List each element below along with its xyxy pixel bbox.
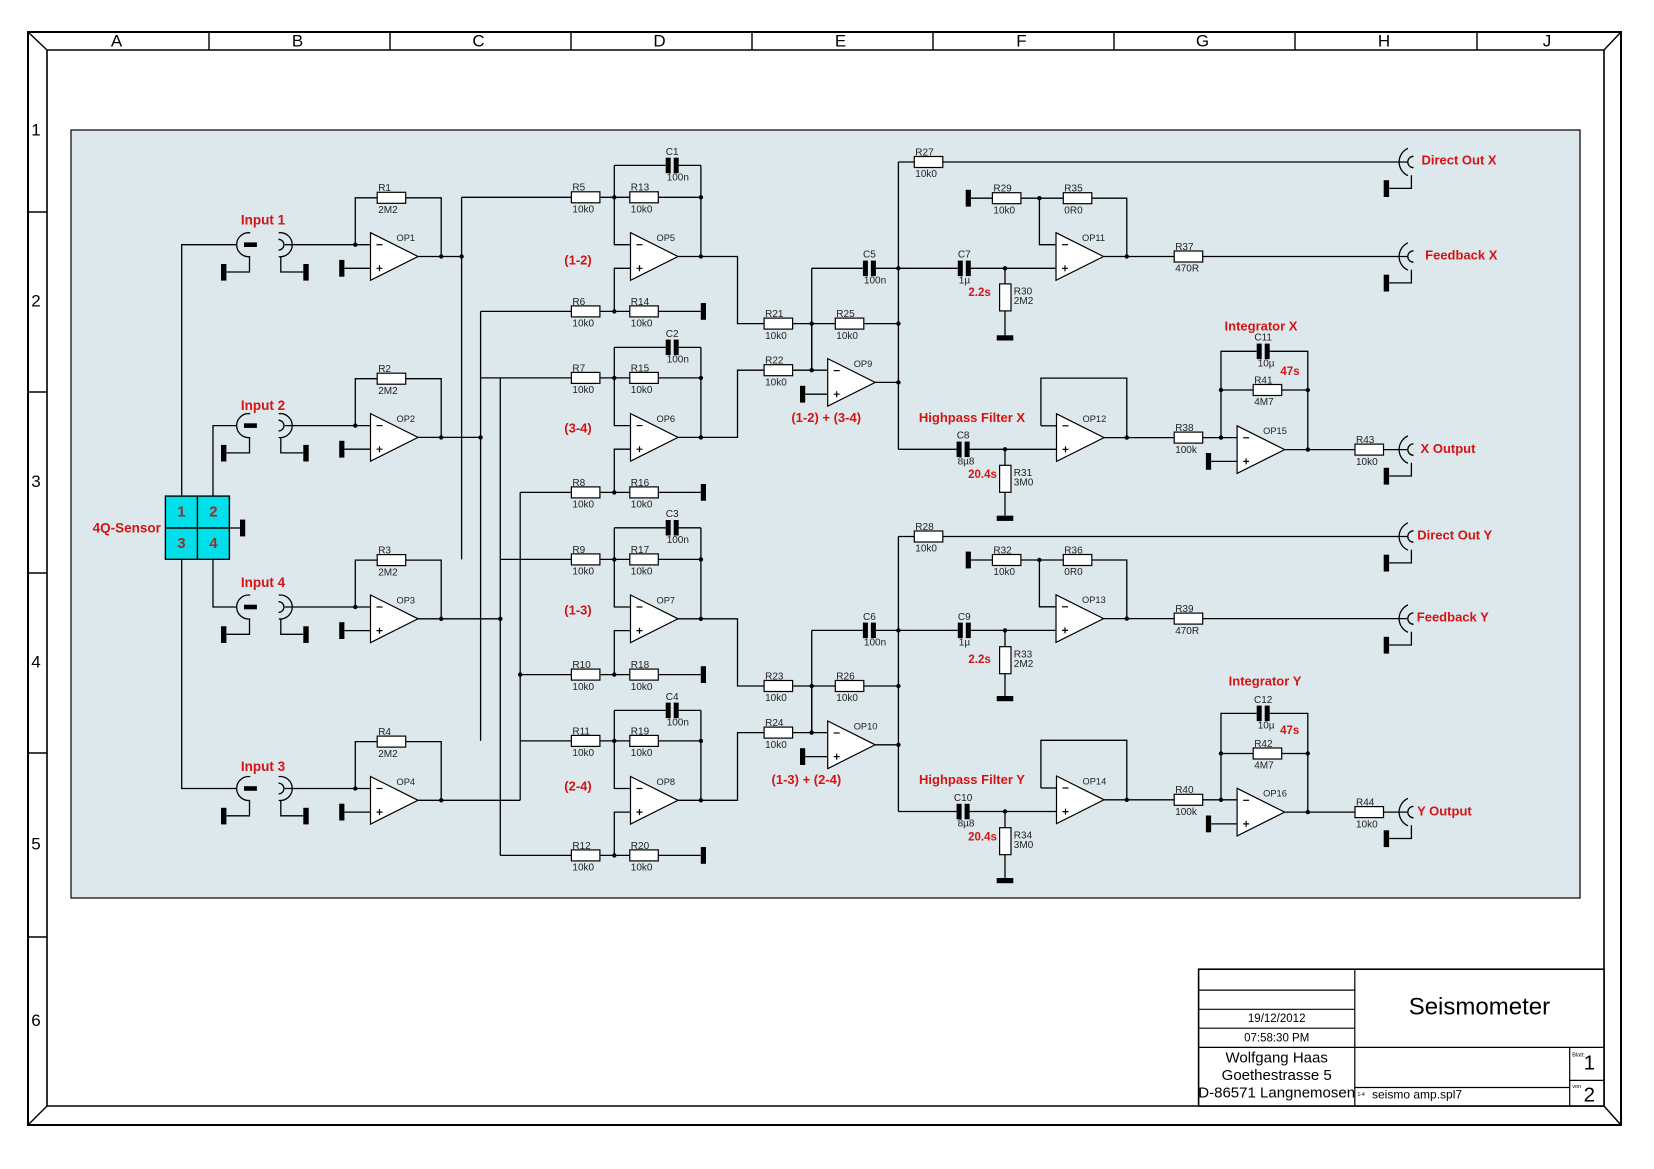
svg-text:Input 1: Input 1 <box>241 213 286 228</box>
wire R39 to Feedback Y <box>1203 618 1408 620</box>
svg-text:seismo amp.spl7: seismo amp.spl7 <box>1372 1088 1462 1102</box>
wire bus input4 column <box>499 378 501 856</box>
op-amp OP11 <box>1056 233 1105 281</box>
wire C6 left lead <box>812 629 863 631</box>
resistor R3 <box>377 546 406 579</box>
connector jack Feedback Y <box>1384 605 1414 654</box>
svg-text:R35: R35 <box>1064 184 1083 195</box>
junction OP12 output feedback <box>1125 435 1129 439</box>
wire OP11 inverting input jog <box>1039 198 1056 245</box>
svg-text:Y Output: Y Output <box>1417 804 1472 819</box>
terminator plate R32 input <box>966 552 971 569</box>
resistor R27 <box>914 147 943 180</box>
wire OP4 non-inverting input <box>344 811 370 813</box>
svg-text:10k0: 10k0 <box>631 748 653 759</box>
svg-text:D-86571 Langnemosen: D-86571 Langnemosen <box>1198 1084 1355 1101</box>
wire OP3 output <box>418 618 500 620</box>
resistor R38 <box>1174 423 1203 456</box>
svg-text:R20: R20 <box>631 841 650 852</box>
resistor R17 <box>630 545 659 578</box>
node OP4 inverting input <box>353 786 357 790</box>
wire R8 to R16 <box>600 491 630 493</box>
resistor R16 <box>630 478 659 511</box>
wire OP4 feedback right <box>406 742 442 801</box>
junction OP8 output feedback <box>699 798 703 802</box>
junction input4 column at OP3 output <box>498 617 502 621</box>
svg-text:R22: R22 <box>765 356 784 367</box>
svg-text:C4: C4 <box>666 692 679 703</box>
wire R29 to R35 <box>1021 197 1063 199</box>
wire R34 top lead <box>1004 812 1006 828</box>
junction R41 left <box>1219 388 1223 392</box>
wire OP14 inverting input <box>1041 787 1057 789</box>
svg-text:10k0: 10k0 <box>1356 457 1378 468</box>
resistor R42 <box>1253 739 1282 772</box>
capacitor C4 <box>666 692 689 729</box>
wire R7 to R15 <box>600 377 630 379</box>
wire sensor Q4 to Input 4 <box>213 559 237 607</box>
wire C6 branch vertical <box>811 630 813 732</box>
wire OP1 feedback left <box>355 198 377 245</box>
wire OP2 feedback left <box>355 379 377 426</box>
svg-text:Goethestrasse 5: Goethestrasse 5 <box>1222 1067 1332 1084</box>
wire C8 to OP12 non-inverting input <box>970 448 1057 450</box>
svg-text:5: 5 <box>31 834 40 853</box>
svg-text:100n: 100n <box>667 173 689 184</box>
resistor R31 <box>1000 465 1034 492</box>
resistor R39 <box>1174 604 1203 637</box>
wire OP8 non-inverting input jog <box>614 812 630 855</box>
svg-text:0R0: 0R0 <box>1064 205 1083 216</box>
connector jack X Output <box>1384 436 1414 485</box>
junction OP16 output feedback <box>1306 810 1310 814</box>
wire C10 to OP14 non-inverting input <box>970 811 1057 813</box>
svg-text:von: von <box>1572 1084 1581 1090</box>
wire R32 to R36 <box>1021 559 1063 561</box>
resistor R33 <box>1000 647 1034 674</box>
svg-text:R14: R14 <box>631 297 650 308</box>
svg-text:2M2: 2M2 <box>1014 659 1034 670</box>
resistor R28 <box>914 522 943 555</box>
junction R11/R19 node <box>612 739 616 743</box>
svg-text:0R0: 0R0 <box>1064 567 1083 578</box>
wire R33 top lead <box>1004 630 1006 646</box>
wire C5 branch vertical <box>811 268 813 370</box>
svg-text:Integrator Y: Integrator Y <box>1229 674 1302 689</box>
svg-text:Wolfgang Haas: Wolfgang Haas <box>1226 1049 1328 1066</box>
capacitor C1 <box>666 147 689 184</box>
resistor R12 <box>571 841 600 874</box>
op-amp OP12 <box>1057 414 1107 462</box>
wire OP13 inverting input jog <box>1039 560 1056 607</box>
junction C7/R30 node <box>1003 266 1007 270</box>
svg-text:OP14: OP14 <box>1083 776 1107 786</box>
wire OP7 output to R23 <box>678 619 764 686</box>
wire OP1 non-inverting input <box>344 267 370 269</box>
wire R24 to OP10 inverting input <box>793 732 828 734</box>
svg-text:2M2: 2M2 <box>378 567 398 578</box>
resistor R44 <box>1355 798 1384 831</box>
svg-text:10k0: 10k0 <box>915 169 937 180</box>
junction R9/R17 node <box>612 557 616 561</box>
resistor R40 <box>1174 785 1203 818</box>
junction R41 right <box>1306 388 1310 392</box>
svg-text:10k0: 10k0 <box>765 693 787 704</box>
junction OP9 summing node <box>810 321 814 325</box>
junction R12/R20 node <box>612 853 616 857</box>
wire OP5 feedback column <box>700 165 702 256</box>
wire R41 left lead <box>1221 389 1253 391</box>
wire R28 left lead <box>898 536 914 538</box>
svg-text:R19: R19 <box>631 726 650 737</box>
svg-text:OP11: OP11 <box>1082 233 1105 243</box>
svg-text:100n: 100n <box>667 355 689 366</box>
wire OP9 summing vertical <box>811 324 813 371</box>
wire R27 left lead <box>898 161 914 163</box>
wire R35 to OP11 output <box>1092 198 1127 256</box>
wire OP9 non-inverting input <box>805 393 828 395</box>
svg-text:C12: C12 <box>1254 695 1273 706</box>
svg-text:C: C <box>472 31 484 50</box>
junction OP5 output feedback <box>699 254 703 258</box>
svg-text:2M2: 2M2 <box>378 386 398 397</box>
wire OP10 summing vertical <box>811 686 813 733</box>
terminator plate OP1 non-inverting input <box>339 260 344 277</box>
wire R11 input <box>520 740 571 742</box>
wire OP1 output <box>418 256 462 258</box>
op-amp OP3 <box>371 595 419 643</box>
sensor 4Q quadrant box <box>165 496 229 559</box>
svg-text:A: A <box>111 31 123 50</box>
svg-text:10k0: 10k0 <box>915 544 937 555</box>
wire OP16 non-inverting input <box>1211 823 1237 825</box>
ground under R30 <box>997 335 1014 340</box>
svg-text:OP9: OP9 <box>854 359 873 369</box>
op-amp OP13 <box>1056 595 1106 643</box>
svg-text:1µ: 1µ <box>959 276 971 287</box>
terminator plate OP15 non-inverting input <box>1206 453 1211 470</box>
wire R44 to Y Output <box>1384 811 1408 813</box>
resistor R22 <box>764 356 793 389</box>
wire OP8 feedback column <box>700 710 702 800</box>
junction C9/R33 node <box>1003 628 1007 632</box>
svg-text:OP15: OP15 <box>1263 426 1287 436</box>
connector jack Input 3 <box>221 777 309 825</box>
capacitor C12 <box>1254 695 1275 732</box>
resistor R34 <box>1000 828 1034 855</box>
wire OP6 non-inverting input jog <box>614 449 630 492</box>
svg-text:100k: 100k <box>1175 807 1198 818</box>
connector jack Input 1 <box>221 233 309 281</box>
junction Y node at OP10 output <box>896 743 900 747</box>
svg-text:6: 6 <box>31 1011 40 1030</box>
junction OP7 output feedback <box>699 617 703 621</box>
terminator plate R29 input <box>966 190 971 207</box>
capacitor C9 <box>958 612 971 649</box>
terminator plate OP4 non-inverting input <box>339 804 344 821</box>
svg-text:10µ: 10µ <box>1258 359 1275 370</box>
svg-text:10µ: 10µ <box>1258 721 1275 732</box>
svg-text:F: F <box>1016 31 1026 50</box>
wire R19 to feedback node <box>658 740 701 742</box>
ground under R31 <box>997 516 1014 521</box>
wire OP11 output to R37 <box>1104 256 1175 258</box>
svg-text:R40: R40 <box>1175 785 1194 796</box>
wire main node X vertical <box>897 162 899 449</box>
resistor R6 <box>571 297 600 330</box>
wire R25 to main vertical <box>864 323 899 325</box>
resistor R20 <box>630 841 659 874</box>
svg-text:10k0: 10k0 <box>572 682 594 693</box>
svg-text:R26: R26 <box>836 671 855 682</box>
resistor R35 <box>1063 184 1092 217</box>
svg-text:X Output: X Output <box>1421 441 1477 456</box>
junction OP15 output feedback <box>1306 447 1310 451</box>
junction OP1 output feedback tap <box>439 254 443 258</box>
svg-text:OP7: OP7 <box>657 595 676 605</box>
wire C3 right lead <box>679 527 701 529</box>
svg-text:4Q-Sensor: 4Q-Sensor <box>93 521 162 536</box>
svg-text:R4: R4 <box>378 727 391 738</box>
junction feedback column at R17 <box>699 557 703 561</box>
svg-text:Input 3: Input 3 <box>241 759 286 774</box>
capacitor C5 <box>863 250 886 287</box>
wire R40 to OP16 inverting input <box>1203 799 1237 801</box>
svg-text:R2: R2 <box>378 364 391 375</box>
schematic sheet background <box>71 130 1580 898</box>
svg-text:1: 1 <box>1584 1051 1595 1074</box>
svg-text:(1-2) + (3-4): (1-2) + (3-4) <box>791 410 861 425</box>
svg-text:R25: R25 <box>836 309 855 320</box>
wire R33 bottom lead <box>1004 674 1006 696</box>
svg-text:10k0: 10k0 <box>572 748 594 759</box>
wire C7 left lead <box>898 267 957 269</box>
svg-text:R11: R11 <box>572 726 590 737</box>
wire OP14 feedback loop <box>1041 740 1127 800</box>
wire R42 left lead <box>1221 753 1253 755</box>
resistor R37 <box>1174 242 1203 275</box>
terminator plate OP16 non-inverting input <box>1206 816 1211 833</box>
wire R20 to terminator <box>658 854 701 856</box>
wire R42 right lead <box>1282 753 1308 755</box>
svg-text:Highpass Filter Y: Highpass Filter Y <box>919 772 1025 787</box>
svg-text:Feedback Y: Feedback Y <box>1417 610 1489 625</box>
wire R43 to X Output <box>1384 449 1408 451</box>
capacitor C7 <box>958 250 971 287</box>
resistor R24 <box>764 718 793 751</box>
resistor R21 <box>764 309 793 342</box>
wire R9 to R17 <box>600 558 630 560</box>
svg-text:10k0: 10k0 <box>572 567 594 578</box>
wire OP10 summing node top <box>793 685 836 687</box>
wire OP4 feedback left <box>355 742 377 789</box>
svg-text:C3: C3 <box>666 509 679 520</box>
capacitor C8 <box>957 431 975 468</box>
wire OP3 feedback left <box>355 560 377 607</box>
svg-text:C2: C2 <box>666 329 679 340</box>
wire OP8 inverting input jog <box>614 710 630 788</box>
op-amp OP15 <box>1237 426 1287 474</box>
svg-text:4: 4 <box>209 535 218 552</box>
svg-text:10k0: 10k0 <box>1356 819 1378 830</box>
terminator plate sensor common <box>240 520 245 537</box>
resistor R36 <box>1063 545 1092 578</box>
svg-text:OP6: OP6 <box>657 414 676 424</box>
wire OP5 output to R21 <box>678 257 764 324</box>
wire OP12 output to R38 <box>1103 437 1174 439</box>
svg-text:2.2s: 2.2s <box>968 654 990 666</box>
svg-text:10k0: 10k0 <box>631 567 653 578</box>
svg-text:2M2: 2M2 <box>378 205 398 216</box>
resistor R18 <box>630 660 659 693</box>
svg-text:Direct Out Y: Direct Out Y <box>1417 527 1492 542</box>
terminator plate R18 <box>701 666 706 683</box>
wire OP2 output <box>418 436 481 438</box>
wire C4 left lead <box>614 709 665 711</box>
svg-text:Input 4: Input 4 <box>241 575 286 590</box>
wire R41 right lead <box>1282 389 1308 391</box>
wire R14 to terminator <box>658 310 701 312</box>
svg-text:2: 2 <box>209 503 217 520</box>
svg-text:10k0: 10k0 <box>631 863 653 874</box>
wire plate to R32 <box>971 559 993 561</box>
terminator plate OP10 non-inverting input <box>800 748 805 765</box>
junction OP10 inverting input <box>810 730 814 734</box>
wire sensor Q2 to Input 2 <box>213 426 237 497</box>
wire OP12 feedback loop <box>1041 378 1127 438</box>
wire OP1 feedback right <box>406 198 442 257</box>
wire R11 to R19 <box>600 740 630 742</box>
capacitor C10 <box>954 793 975 830</box>
connector jack Direct Out X <box>1384 148 1414 197</box>
junction OP11 output feedback <box>1125 254 1129 258</box>
svg-text:Seismometer: Seismometer <box>1409 993 1550 1020</box>
svg-text:10k0: 10k0 <box>631 500 653 511</box>
junction R8/R16 node <box>612 490 616 494</box>
resistor R5 <box>571 183 600 216</box>
node OP3 inverting input <box>353 605 357 609</box>
wire R30 top lead <box>1004 268 1006 284</box>
svg-text:R21: R21 <box>765 309 784 320</box>
terminator plate OP2 non-inverting input <box>339 441 344 458</box>
wire R17 to feedback node <box>658 558 701 560</box>
terminator plate R16 <box>701 484 706 501</box>
wire OP2 non-inverting input <box>344 448 370 450</box>
terminator plate OP9 non-inverting input <box>800 386 805 403</box>
wire C9 to OP13 non-inverting input <box>971 629 1056 631</box>
wire R30 bottom lead <box>1004 311 1006 336</box>
svg-text:H: H <box>1378 31 1390 50</box>
svg-text:R13: R13 <box>631 183 650 194</box>
resistor R26 <box>835 671 864 704</box>
junction X node at OP9 output <box>896 380 900 384</box>
resistor R4 <box>377 727 406 760</box>
svg-text:Integrator X: Integrator X <box>1225 319 1298 334</box>
resistor R41 <box>1253 375 1282 408</box>
svg-text:(1-3): (1-3) <box>564 603 591 618</box>
junction OP4 output feedback tap <box>439 798 443 802</box>
junction R7/R15 node <box>612 376 616 380</box>
svg-text:R36: R36 <box>1064 545 1083 556</box>
junction R32/R36 node <box>1037 558 1041 562</box>
wire C7 to OP11 non-inverting input <box>971 267 1056 269</box>
svg-text:3M0: 3M0 <box>1014 840 1034 851</box>
wire R38 to OP15 inverting input <box>1203 437 1237 439</box>
wire C9 left lead <box>898 629 957 631</box>
svg-text:470R: 470R <box>1175 626 1199 637</box>
junction input2 column at OP2 output <box>478 435 482 439</box>
op-amp OP2 <box>371 414 419 462</box>
terminator plate R14 <box>701 303 706 320</box>
wire R27 to Direct Out X <box>943 161 1408 163</box>
svg-text:10k0: 10k0 <box>572 319 594 330</box>
svg-text:R3: R3 <box>378 546 391 557</box>
svg-text:10k0: 10k0 <box>765 377 787 388</box>
junction feedback column at R19 <box>699 739 703 743</box>
svg-text:3: 3 <box>31 472 40 491</box>
svg-text:(1-2): (1-2) <box>564 253 591 268</box>
svg-text:C11: C11 <box>1254 333 1272 344</box>
junction R6/R14 node <box>612 309 616 313</box>
svg-text:1µ: 1µ <box>959 638 971 649</box>
svg-text:R27: R27 <box>915 147 934 158</box>
connector jack Input 2 <box>221 414 309 462</box>
svg-text:Input 2: Input 2 <box>241 398 285 413</box>
wire R12 input <box>500 854 571 856</box>
svg-text:OP3: OP3 <box>397 595 416 605</box>
junction R42 right <box>1306 751 1310 755</box>
svg-text:4: 4 <box>31 652 40 671</box>
svg-text:10k0: 10k0 <box>572 500 594 511</box>
svg-text:19/12/2012: 19/12/2012 <box>1248 1013 1306 1025</box>
wire C5 left lead <box>812 267 863 269</box>
wire C11 right branch <box>1270 351 1308 449</box>
wire R37 to Feedback X <box>1203 256 1408 258</box>
op-amp OP4 <box>371 777 419 825</box>
svg-text:R41: R41 <box>1254 375 1273 386</box>
connector jack Y Output <box>1384 798 1414 847</box>
svg-text:OP2: OP2 <box>397 414 416 424</box>
wire C1 left lead <box>614 164 665 166</box>
wire C10 left lead <box>898 811 956 813</box>
svg-text:2.2s: 2.2s <box>968 287 990 299</box>
wire bus input1 column <box>461 197 463 559</box>
svg-text:4M7: 4M7 <box>1254 761 1274 772</box>
svg-text:C7: C7 <box>958 250 971 261</box>
wire R9 input <box>500 558 571 560</box>
wire OP10 output <box>875 744 898 746</box>
svg-text:8µ8: 8µ8 <box>958 457 975 468</box>
wire sensor common to plate <box>229 527 240 529</box>
junction OP15 inverting input <box>1219 435 1223 439</box>
svg-text:100n: 100n <box>864 276 886 287</box>
svg-text:100n: 100n <box>667 718 689 729</box>
junction OP16 inverting input <box>1219 798 1223 802</box>
svg-text:OP13: OP13 <box>1082 595 1106 605</box>
svg-text:OP1: OP1 <box>397 233 416 243</box>
resistor R30 <box>1000 284 1034 311</box>
wire OP6 inverting input jog <box>614 347 630 425</box>
op-amp OP8 <box>631 777 679 825</box>
svg-text:R38: R38 <box>1175 423 1194 434</box>
wire C1 right lead <box>679 164 701 166</box>
op-amp OP10 <box>828 721 878 769</box>
wire R36 to OP13 output <box>1092 560 1127 619</box>
wire OP13 output to R39 <box>1104 618 1175 620</box>
svg-text:R15: R15 <box>631 363 650 374</box>
svg-text:Feedback X: Feedback X <box>1425 247 1498 262</box>
svg-text:100k: 100k <box>1175 445 1198 456</box>
